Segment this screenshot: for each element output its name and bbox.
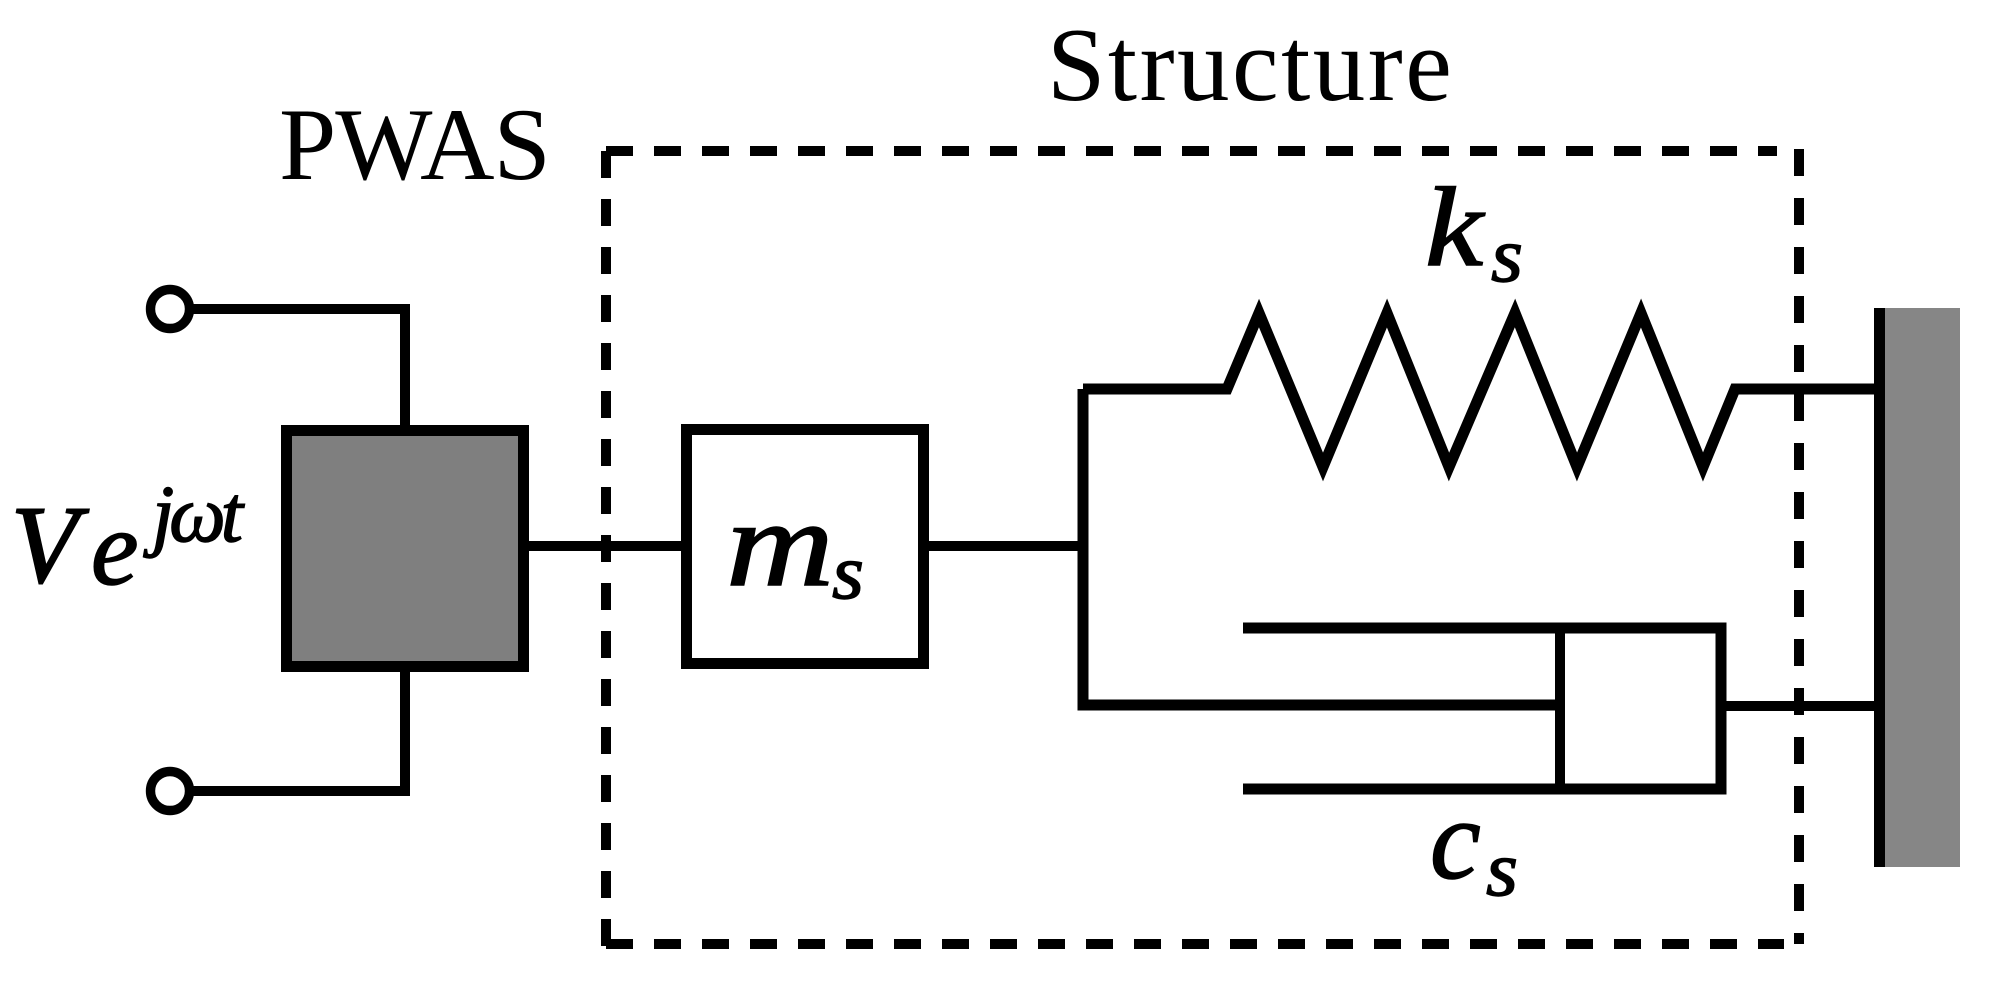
terminal top (151, 290, 190, 329)
dashed box: structure boundary left (601, 151, 611, 949)
svg-text:c: c (1430, 776, 1481, 903)
dashed box: structure boundary right (1794, 149, 1804, 944)
wall fixed support gray (1885, 308, 1960, 867)
svg-text:m: m (726, 475, 834, 612)
label Ve^jwt voltage source (11, 471, 245, 608)
wall fixed support black edge (1874, 308, 1885, 867)
svg-text:PWAS: PWAS (279, 88, 550, 202)
damper cylinder (1243, 628, 1721, 789)
wire damper to wall (1721, 701, 1884, 711)
label c_s (1430, 776, 1518, 912)
wire bottom terminal to PWAS (193, 667, 405, 791)
spring k_s (1083, 313, 1879, 467)
label k_s (1425, 165, 1523, 298)
mass block m_s (687, 430, 924, 664)
svg-text:s: s (832, 528, 864, 615)
svg-text:jωt: jωt (143, 471, 245, 559)
svg-text:V: V (11, 484, 89, 606)
dashed box: structure boundary top (606, 146, 1777, 156)
terminal bottom (151, 772, 190, 811)
wire top terminal to PWAS (193, 309, 405, 430)
damper piston (1555, 623, 1565, 794)
wire PWAS to mass (524, 541, 686, 551)
PWAS block (287, 431, 524, 667)
svg-text:Structure: Structure (1047, 6, 1454, 123)
svg-text:s: s (1491, 211, 1523, 298)
svg-text:s: s (1486, 825, 1518, 912)
label m_s (726, 475, 864, 615)
wire mass to branch node (929, 541, 1088, 551)
wire branch node vertical and damper rod (1083, 389, 1560, 705)
dashed box: structure boundary bottom (606, 939, 1784, 949)
svg-text:e: e (91, 490, 139, 608)
svg-text:k: k (1425, 165, 1485, 290)
